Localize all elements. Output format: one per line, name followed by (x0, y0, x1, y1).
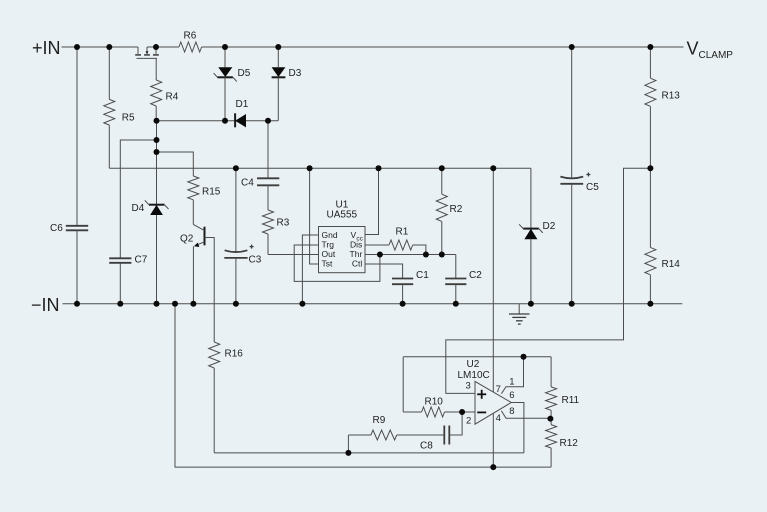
svg-text:2: 2 (466, 416, 471, 427)
svg-text:C5: C5 (586, 182, 599, 193)
junction dots top rail (74, 44, 80, 50)
wire pin 1 to feedback node (501, 357, 523, 394)
svg-text:R10: R10 (425, 397, 444, 408)
wire Thr corner down to C2 (455, 255, 457, 279)
wire down to R10 (402, 357, 404, 412)
wire mid rail y=168 from R5 to D2 (109, 167, 531, 169)
svg-text:C8: C8 (420, 441, 433, 452)
capacitor C2 (445, 270, 482, 304)
wire to R15 (157, 152, 194, 176)
svg-text:V: V (687, 39, 699, 59)
svg-text:7: 7 (496, 384, 501, 395)
wire R10 to pin 2 (462, 411, 475, 413)
svg-text:+IN: +IN (32, 38, 61, 58)
junction dots left chain (154, 137, 160, 143)
junction dots D1 row (154, 118, 160, 124)
transistor Q1 P-MOSFET pass element (135, 47, 159, 58)
wire Tst pin up to mid rail (310, 168, 319, 264)
wire +IN rail to MOSFET source (62, 46, 139, 48)
transistor Q2 (180, 224, 205, 303)
svg-text:C2: C2 (469, 270, 482, 281)
resistor R10 (403, 397, 462, 418)
svg-text:C7: C7 (135, 255, 148, 266)
diode D5 zener (214, 47, 251, 121)
junction dots mid rail y=168 (233, 165, 239, 171)
wire Vcc pin up to mid rail (365, 168, 379, 234)
svg-text:C1: C1 (416, 270, 429, 281)
junction dots -IN rail (74, 301, 80, 307)
wire D1 junction down to C4 (267, 121, 269, 179)
svg-text:R3: R3 (277, 218, 290, 229)
svg-text:6: 6 (509, 390, 514, 401)
wire op-amp pin 4 down to lower rail (492, 413, 494, 467)
resistor R9 (348, 415, 444, 453)
resistor R5 (104, 47, 135, 168)
svg-text:R2: R2 (450, 204, 463, 215)
capacitor C3 (224, 168, 261, 304)
svg-text:Tst: Tst (322, 259, 334, 269)
op-amp U1 UA555 timer box (319, 200, 366, 273)
svg-text:UA555: UA555 (327, 210, 358, 221)
svg-text:R16: R16 (225, 349, 244, 360)
svg-text:R4: R4 (166, 92, 179, 103)
svg-text:3: 3 (466, 380, 471, 391)
junction dots op-amp area (521, 354, 527, 360)
resistor R1 (389, 227, 426, 255)
resistor R14 (645, 168, 680, 304)
capacitor C1 (392, 270, 429, 304)
resistor R11 (546, 357, 580, 419)
svg-text:CLAMP: CLAMP (699, 50, 734, 61)
svg-text:C3: C3 (249, 255, 262, 266)
diode D4 zener (132, 200, 169, 303)
svg-text:R14: R14 (662, 259, 681, 270)
svg-text:LM10C: LM10C (458, 370, 490, 381)
svg-text:Dis: Dis (350, 240, 362, 250)
svg-text:R5: R5 (122, 113, 135, 124)
wire D1 row left (157, 120, 236, 122)
svg-text:4: 4 (496, 413, 501, 424)
svg-text:U2: U2 (467, 359, 480, 370)
wire jog from R13 node down-left to op-amp +input (446, 168, 651, 393)
capacitor C7 (109, 255, 148, 304)
capacitor C6 (50, 47, 88, 304)
wire pin 8 to R11/R12 junction (501, 411, 550, 419)
resistor R16 (209, 342, 244, 453)
wire Trg pin loop to Thr node (294, 245, 380, 281)
resistor R6 (179, 31, 202, 53)
svg-text:R13: R13 (662, 91, 681, 102)
wire rail B (-IN to R12) (175, 304, 551, 467)
wire junction chain below R4 (156, 121, 158, 205)
wire mid-rail node down to op-amp pin 7 (492, 168, 494, 392)
svg-text:D5: D5 (238, 68, 251, 79)
svg-text:R6: R6 (184, 31, 197, 42)
wire to C7 (120, 140, 156, 258)
capacitor C8 (420, 412, 462, 452)
resistor R13 (645, 47, 680, 168)
junction dots Thr row (377, 252, 383, 258)
wire Gnd pin to -IN rail (302, 235, 318, 304)
capacitor C4 (241, 178, 279, 189)
resistor R2 (436, 168, 462, 254)
resistor R3 (263, 185, 290, 254)
svg-text:D3: D3 (289, 68, 302, 79)
capacitor C5 (560, 47, 599, 304)
svg-text:Q2: Q2 (180, 234, 194, 245)
svg-text:C6: C6 (50, 223, 63, 234)
svg-text:R9: R9 (373, 415, 386, 426)
svg-text:R1: R1 (396, 227, 409, 238)
op-amp U2 LM10C (458, 359, 515, 427)
wire Q2 base to R16 (205, 238, 215, 343)
resistor R15 (188, 176, 221, 224)
wire feedback net y=357 (403, 356, 551, 358)
diode D1 (235, 99, 278, 127)
node V_CLAMP label (687, 39, 734, 62)
wire pin 6 output down to rail A (511, 403, 524, 453)
svg-text:R12: R12 (560, 438, 579, 449)
svg-text:C4: C4 (241, 178, 254, 189)
resistor R4 (151, 58, 179, 121)
svg-text:−IN: −IN (31, 295, 60, 315)
svg-text:1: 1 (509, 376, 514, 387)
ground (509, 304, 530, 324)
svg-text:D2: D2 (543, 221, 556, 232)
diode D2 zener (519, 168, 556, 304)
svg-text:Trg: Trg (322, 240, 335, 250)
resistor R12 (546, 418, 579, 467)
svg-text:Out: Out (322, 249, 336, 259)
svg-text:R11: R11 (562, 395, 580, 406)
wire rail A (R16 to pin6) (214, 452, 524, 454)
svg-text:Thr: Thr (350, 249, 363, 259)
wire Dis pin to R1 (365, 244, 389, 246)
svg-text:R15: R15 (202, 187, 221, 198)
svg-text:D1: D1 (236, 99, 249, 110)
diode D3 (272, 47, 302, 121)
svg-text:8: 8 (509, 406, 514, 417)
wire Ctl pin to C1 (365, 264, 403, 279)
wire rail from MOSFET to V_CLAMP (147, 46, 179, 48)
wire R3 to Out pin (268, 254, 319, 256)
svg-text:D4: D4 (132, 203, 145, 214)
svg-text:Gnd: Gnd (322, 230, 338, 240)
wire top rail right of R6 (202, 46, 684, 48)
svg-text:Ctl: Ctl (352, 259, 363, 269)
wire -IN rail (63, 303, 683, 305)
wire Thr row (365, 254, 456, 256)
